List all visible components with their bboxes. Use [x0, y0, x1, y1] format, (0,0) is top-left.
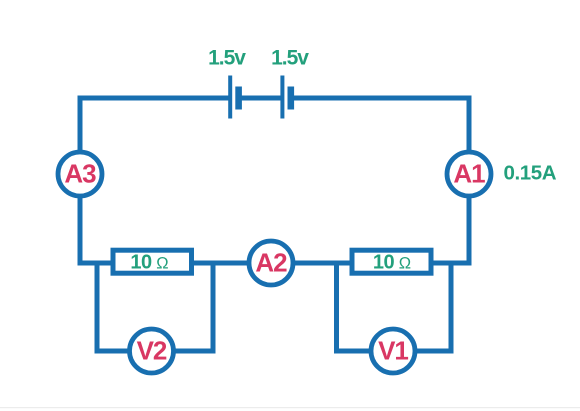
- wire: bottom main horizontal (through R1, A2, R2): [78, 261, 472, 266]
- ammeter A3: [58, 152, 102, 196]
- wire: V2 branch left vertical: [95, 263, 100, 354]
- wire: left vertical (through A3): [78, 96, 83, 266]
- wire: top-right horizontal (battery to right corner): [292, 96, 471, 101]
- svg-text:1.5v: 1.5v: [208, 47, 246, 70]
- svg-text:A2: A2: [255, 248, 287, 278]
- svg-text:1.5v: 1.5v: [271, 47, 309, 70]
- svg-text:V1: V1: [378, 336, 408, 366]
- svg-text:V2: V2: [137, 336, 167, 366]
- battery cell 1: long plate: [228, 76, 232, 119]
- svg-text:0.15A: 0.15A: [504, 161, 557, 184]
- svg-text:10 Ω: 10 Ω: [373, 252, 411, 274]
- wire: right vertical (through A1): [467, 96, 472, 266]
- wire: V1 branch right vertical: [449, 263, 454, 354]
- ammeter A1: [447, 152, 491, 196]
- voltmeter V2: [130, 329, 174, 373]
- battery cell 2: long plate: [280, 76, 284, 119]
- wire: V2 branch right vertical: [211, 263, 216, 354]
- ammeter A2: [249, 241, 293, 285]
- svg-text:10 Ω: 10 Ω: [130, 252, 168, 274]
- wire: V1 branch left vertical: [334, 263, 339, 354]
- resistor R1 (10 ohm) box: [113, 250, 192, 273]
- wire: between battery cells: [240, 96, 282, 101]
- voltmeter V1: [371, 329, 415, 373]
- battery cell 2: short thick plate: [288, 87, 295, 110]
- svg-text:A1: A1: [453, 159, 485, 189]
- divider hairline at page bottom: [0, 407, 580, 408]
- svg-text:A3: A3: [64, 159, 96, 189]
- wire: top-left horizontal (battery to left corner): [78, 96, 230, 101]
- wire: V2 bottom horizontal (through V2): [95, 349, 216, 354]
- wire: V1 bottom horizontal (through V1): [334, 349, 454, 354]
- battery cell 1: short thick plate: [235, 87, 242, 110]
- resistor R2 (10 ohm) box: [352, 250, 431, 273]
